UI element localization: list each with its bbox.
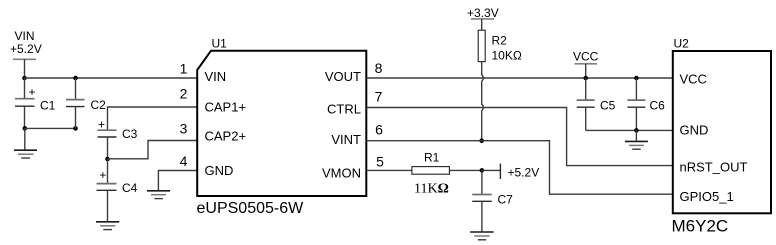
svg-text:3: 3 xyxy=(180,121,188,137)
ground below C7 xyxy=(470,232,493,240)
svg-text:VINT: VINT xyxy=(331,132,361,147)
svg-text:11KΩ: 11KΩ xyxy=(414,182,449,197)
svg-text:nRST_OUT: nRST_OUT xyxy=(680,159,748,174)
svg-text:4: 4 xyxy=(180,153,188,169)
svg-text:7: 7 xyxy=(375,89,383,105)
wire VOUT rail U1 pin8 to U2 VCC xyxy=(366,77,673,79)
node C6 top junction dot xyxy=(634,76,639,81)
svg-text:VOUT: VOUT xyxy=(325,69,361,84)
svg-text:C5: C5 xyxy=(600,98,616,112)
svg-text:U1: U1 xyxy=(212,36,228,50)
svg-text:+5.2V: +5.2V xyxy=(508,165,540,179)
svg-text:R1: R1 xyxy=(424,151,440,165)
power flag VIN +5.2V xyxy=(10,29,42,78)
svg-text:CAP2+: CAP2+ xyxy=(205,128,247,143)
svg-text:GND: GND xyxy=(680,123,709,138)
svg-text:eUPS0505-6W: eUPS0505-6W xyxy=(197,200,305,217)
svg-text:R2: R2 xyxy=(492,34,508,48)
wire GND rail C5 to U2 GND xyxy=(586,129,673,131)
wire U1 pin5 VMON to R1 xyxy=(366,169,412,171)
capacitor C2 xyxy=(66,78,106,128)
svg-text:+5.2V: +5.2V xyxy=(10,42,42,56)
wire C1 bottom to C2 bottom xyxy=(25,127,76,129)
capacitor C5 xyxy=(577,78,616,130)
svg-text:GPIO5_1: GPIO5_1 xyxy=(680,189,734,204)
svg-text:VMON: VMON xyxy=(322,165,361,180)
capacitor C4 xyxy=(97,159,138,222)
svg-text:VCC: VCC xyxy=(680,72,707,87)
svg-text:CTRL: CTRL xyxy=(327,101,361,116)
svg-text:C1: C1 xyxy=(40,99,56,113)
svg-text:10KΩ: 10KΩ xyxy=(492,49,522,63)
svg-text:C6: C6 xyxy=(650,98,666,112)
node C1 bottom junction dot xyxy=(23,126,28,131)
node C2 bottom junction dot xyxy=(73,126,78,131)
capacitor C1 xyxy=(15,78,56,128)
resistor R2 xyxy=(478,30,522,62)
op-amp U1 eUPS0505-6W box xyxy=(197,51,366,196)
svg-text:C4: C4 xyxy=(122,181,138,195)
svg-text:C7: C7 xyxy=(498,193,514,207)
svg-text:M6Y2C: M6Y2C xyxy=(672,217,729,236)
wire VINT U1 pin6 to U2 GPIO5_1 xyxy=(366,141,673,195)
wire R2 bottom to VINT net with hops xyxy=(482,62,484,141)
svg-text:2: 2 xyxy=(180,86,188,102)
node C3 bottom junction dot xyxy=(105,157,110,162)
wire node to +5.2V bar xyxy=(482,169,500,171)
svg-text:8: 8 xyxy=(375,60,383,76)
IC U2 M6Y2C box xyxy=(673,51,771,213)
wire U1 pin 2 to C3 top xyxy=(108,107,198,130)
wire C3 bottom to U1 pin 3 xyxy=(108,141,198,159)
wire VIN rail to U1 pin 1 xyxy=(25,77,198,79)
ground below C6 xyxy=(625,130,648,149)
svg-text:1: 1 xyxy=(180,61,188,77)
svg-text:+: + xyxy=(28,85,35,99)
capacitor C7 xyxy=(472,170,513,232)
node VCC/C5 junction dot xyxy=(583,76,588,81)
ground below C4 xyxy=(96,222,119,230)
wire R1 to +5.2V node xyxy=(449,169,482,171)
svg-text:CAP1+: CAP1+ xyxy=(205,100,247,115)
wire CTRL U1 pin7 to U2 nRST_OUT xyxy=(366,108,673,166)
power flag VCC xyxy=(573,50,599,78)
node R2/VINT junction dot xyxy=(479,138,484,143)
capacitor C3 xyxy=(98,117,138,159)
node C6 bottom junction dot xyxy=(634,128,639,133)
svg-text:+: + xyxy=(98,117,105,131)
svg-text:VIN: VIN xyxy=(205,69,227,84)
node R1/C7 junction dot xyxy=(480,168,485,173)
svg-text:+3.3V: +3.3V xyxy=(467,6,499,20)
power flag +3.3V xyxy=(467,6,499,30)
svg-text:C3: C3 xyxy=(122,127,138,141)
power flag +5.2V right xyxy=(500,164,539,180)
ground below C1 xyxy=(14,128,37,158)
svg-text:GND: GND xyxy=(205,163,234,178)
resistor R1 xyxy=(412,151,450,197)
svg-text:VCC: VCC xyxy=(573,50,599,64)
node C2 top junction dot xyxy=(73,76,78,81)
ground below U1 pin 4 xyxy=(147,191,170,199)
svg-text:+: + xyxy=(99,168,106,182)
node VIN junction dot xyxy=(22,76,27,81)
wire U1 pin 4 to ground xyxy=(158,171,197,191)
svg-text:U2: U2 xyxy=(674,36,690,50)
svg-text:C2: C2 xyxy=(91,98,107,112)
capacitor C6 xyxy=(627,78,665,130)
svg-text:5: 5 xyxy=(376,154,384,170)
svg-text:VIN: VIN xyxy=(15,29,35,43)
svg-text:6: 6 xyxy=(375,122,383,138)
